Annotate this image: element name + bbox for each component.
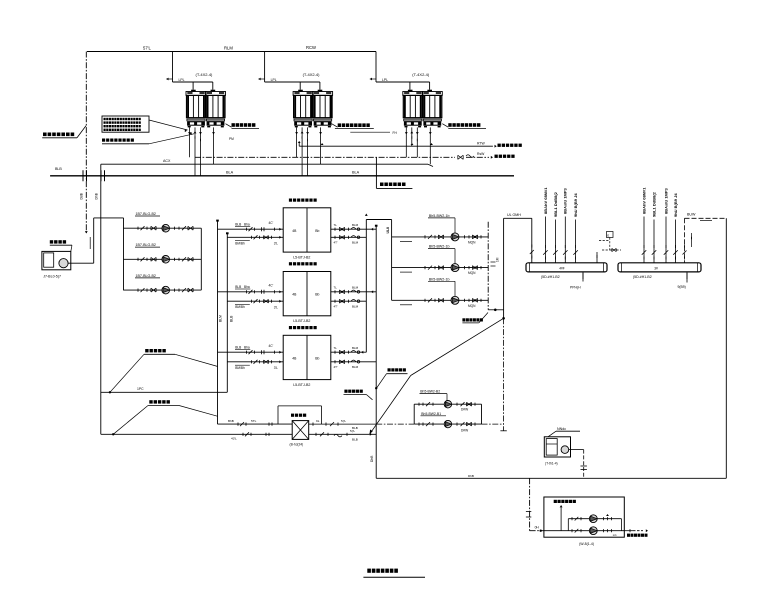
- svg-text:PPH(H: PPH(H: [570, 286, 581, 290]
- svg-text:(T-4X2-4): (T-4X2-4): [303, 72, 321, 77]
- pump branch chilled-water P3: [124, 289, 202, 291]
- riser pipe 9hU B(B9 J4 to manifold: [675, 220, 677, 263]
- svg-text:1B7-BLG-B2: 1B7-BLG-B2: [136, 243, 156, 247]
- svg-text:BLM: BLM: [352, 346, 359, 350]
- svg-text:(T-4X2-4): (T-4X2-4): [196, 72, 214, 77]
- wire pump suction manifold: [123, 218, 125, 291]
- callout blowdown valve lower: [149, 400, 170, 403]
- wire chilled supply riser B: [226, 233, 228, 392]
- cooling tower cell: [191, 90, 196, 92]
- svg-text:(T-4X2-4): (T-4X2-4): [412, 72, 430, 77]
- wire chiller outlet lower: [331, 236, 367, 238]
- wire feed drop to cooling tower pair 1: [172, 52, 174, 83]
- callout left edge (makeup water note): [43, 133, 74, 137]
- wire manifold above tower pair 1: [173, 81, 213, 83]
- wire main cooling water bus BLA: [50, 175, 514, 177]
- node small mark on centerline: [89, 237, 91, 249]
- svg-text:(5D-#H1-B2: (5D-#H1-B2: [541, 275, 560, 279]
- label chiller 02 name above: [289, 262, 317, 265]
- svg-text:5TL: 5TL: [251, 419, 257, 423]
- svg-text:BM/Bh: BM/Bh: [235, 305, 245, 309]
- wire drain stubs below tower pair 3: [405, 127, 407, 157]
- svg-text:3'L: 3'L: [274, 306, 278, 310]
- svg-text:7L: 7L: [334, 223, 338, 227]
- callout second note under box: [102, 139, 134, 142]
- chiller unit LS-02 box: [283, 272, 331, 316]
- valve on blowdown line: [458, 155, 463, 159]
- svg-text:BM/Bh: BM/Bh: [235, 366, 245, 370]
- label skid outlet: [627, 534, 648, 537]
- pump branch condenser-water CP2: [392, 267, 489, 269]
- svg-text:4B: 4B: [292, 229, 297, 233]
- bypass loop above heat exchanger: [277, 406, 279, 424]
- cooling tower cell: [211, 90, 216, 92]
- svg-text:BLB: BLB: [55, 167, 62, 171]
- wire main condenser discharge riser: [503, 218, 505, 318]
- label inside skid: [554, 500, 576, 503]
- svg-text:(W-8(1-4): (W-8(1-4): [579, 542, 594, 546]
- svg-text:5('L: 5('L: [341, 419, 346, 423]
- wire drop into distributor: [531, 218, 533, 262]
- svg-text:UL8: UL8: [386, 227, 390, 234]
- label at collector junction: [462, 318, 483, 321]
- wire drain stubs below tower pair 1: [189, 127, 191, 157]
- wire drain stubs below tower pair 2: [296, 127, 298, 157]
- pump branch condenser-water CP1: [392, 236, 489, 238]
- wire HX outlet upper continue: [309, 423, 377, 425]
- wire blowdown dash-dot line: [195, 156, 455, 158]
- svg-text:L5-BTJ-B2: L5-BTJ-B2: [293, 255, 310, 259]
- label line FH under pair-2 note: [350, 131, 390, 133]
- svg-text:8BAsIU 1MP3: 8BAsIU 1MP3: [663, 187, 668, 214]
- svg-text:BLA: BLA: [226, 170, 234, 174]
- svg-text:BLM: BLM: [352, 305, 359, 309]
- wire from makeup device down to loop: [569, 449, 584, 451]
- bypass between manifolds: [607, 232, 614, 238]
- svg-text:LPL: LPL: [179, 78, 185, 82]
- union fitting on bus near riser: [100, 170, 102, 181]
- callout blowdown valve upper: [145, 349, 166, 352]
- label note line after pair 3: [442, 124, 448, 128]
- svg-text:Bh5-BW2-1b: Bh5-BW2-1b: [429, 214, 450, 218]
- svg-text:Bb: Bb: [315, 293, 319, 297]
- chemical dosing device box: [42, 251, 71, 269]
- callout drain valve at riser D: [388, 368, 406, 371]
- wire manifold above tower pair 3: [376, 81, 430, 83]
- makeup water device box: [544, 437, 570, 457]
- svg-text:BM/Bh: BM/Bh: [235, 241, 245, 245]
- svg-text:9BL1 DdB8(2: 9BL1 DdB8(2: [651, 191, 656, 217]
- svg-text:Bh5-BW2-1b: Bh5-BW2-1b: [429, 277, 450, 281]
- wire lower pipe to heat exchanger: [101, 433, 292, 435]
- svg-text:BLM: BLM: [352, 365, 359, 369]
- wire chiller outlet upper: [331, 228, 376, 230]
- svg-text:4C': 4C': [269, 344, 274, 348]
- riser pipe 8BAsIU 1MP3 to manifold: [665, 217, 667, 263]
- svg-text:4C': 4C': [269, 221, 274, 225]
- svg-text:9hU B(B9 J4: 9hU B(B9 J4: [673, 193, 678, 217]
- riser pipe 8BAsIU 1MP3 to manifold: [564, 217, 566, 263]
- svg-text:BLB: BLB: [235, 285, 241, 289]
- riser pipe 9hU B(B9 J4 to manifold: [575, 220, 577, 263]
- node arrows at tower pair 1 drain junction: [185, 129, 187, 132]
- riser pipe 9BL1 DdB8(2 to manifold: [554, 220, 556, 263]
- svg-text:RsW: RsW: [477, 152, 485, 156]
- wire ACX return header: [101, 163, 428, 165]
- svg-text:D#W: D#W: [461, 429, 468, 433]
- svg-text:4T': 4T': [334, 305, 339, 309]
- wire condenser pump suction manifold: [391, 220, 393, 301]
- wire riser dash-dot continuation down: [503, 318, 505, 431]
- svg-text:MQN: MQN: [468, 304, 476, 308]
- svg-text:Bb: Bb: [315, 229, 319, 233]
- chiller unit LS-03 box: [283, 335, 331, 379]
- wire main left riser: [100, 164, 102, 434]
- svg-text:BLM: BLM: [352, 223, 359, 227]
- wire drop to makeup pump skid: [529, 478, 531, 530]
- svg-text:D#W: D#W: [461, 407, 468, 411]
- riser pipe 8BAhV 08M#1 to manifold: [643, 217, 645, 263]
- svg-text:L5-BTJ-B2: L5-BTJ-B2: [293, 319, 310, 323]
- wire manifold above tower pair 2: [265, 81, 320, 83]
- svg-text:LPL: LPL: [382, 78, 388, 82]
- svg-text:4B: 4B: [292, 356, 297, 360]
- makeup pump skid box: [544, 497, 624, 537]
- wire BUW dashed header to collector: [685, 217, 727, 219]
- svg-text:(T-th1-4): (T-th1-4): [545, 462, 558, 466]
- wire plant loop right edge: [725, 218, 727, 478]
- svg-text:0H: 0H: [535, 525, 540, 529]
- heat exchanger HX-1: [292, 421, 309, 440]
- drain under distributor: [582, 273, 584, 276]
- svg-text:3#: 3#: [654, 267, 658, 271]
- svg-text:43'L: 43'L: [231, 437, 237, 441]
- svg-text:UL OMH: UL OMH: [507, 213, 521, 217]
- wire chiller outlet lower: [331, 361, 376, 363]
- svg-text:DhB: DhB: [468, 474, 474, 478]
- wire pump discharge collector: [200, 228, 202, 290]
- wire feed drop to cooling tower pair 2: [264, 52, 266, 83]
- cooling tower cell: [408, 90, 413, 92]
- wire make-up water line to towers (RTW): [298, 142, 300, 147]
- svg-text:BLM: BLM: [219, 315, 223, 322]
- svg-text:7L: 7L: [334, 346, 338, 350]
- svg-text:J7-BL0-5(7: J7-BL0-5(7: [43, 274, 61, 278]
- union fitting on bus at left: [82, 170, 84, 181]
- svg-text:57'L: 57'L: [143, 46, 151, 51]
- label chiller 03 name above: [289, 326, 317, 329]
- svg-text:RCW: RCW: [306, 45, 316, 50]
- svg-text:1PC: 1PC: [137, 387, 144, 391]
- svg-text:RLM: RLM: [224, 46, 233, 51]
- svg-text:3'L: 3'L: [274, 242, 278, 246]
- wire chiller return riser D (to plant loop): [375, 226, 377, 479]
- svg-text:BLM: BLM: [352, 241, 359, 245]
- extra riser mark near collector right: [691, 233, 693, 247]
- riser pipe 8BAhV 08M#1 to manifold: [544, 217, 546, 263]
- label arrow blowdown: [495, 155, 515, 158]
- svg-text:Bh5-BW2-B2: Bh5-BW2-B2: [420, 390, 440, 394]
- svg-text:FH: FH: [393, 131, 398, 135]
- svg-text:Bh5-BW2-1b: Bh5-BW2-1b: [429, 245, 450, 249]
- svg-text:4B: 4B: [292, 293, 297, 297]
- pump branch chilled-water P2: [124, 258, 202, 260]
- svg-text:4C': 4C': [269, 284, 274, 288]
- wire chiller outlet lower: [331, 300, 367, 302]
- svg-text:DhB: DhB: [95, 192, 99, 199]
- label note line after pair 1: [226, 124, 232, 128]
- wire chiller inlet lower: [227, 361, 283, 363]
- svg-text:9hU B(B9 J4: 9hU B(B9 J4: [573, 193, 578, 217]
- callout expansion joint near riser D: [344, 390, 362, 393]
- pump branch secondary upper: [414, 403, 481, 405]
- chiller unit LS-01 box: [283, 208, 331, 252]
- collector manifold (right bar): [618, 263, 701, 272]
- svg-text:1B7-BLG-B2: 1B7-BLG-B2: [136, 212, 156, 216]
- wire collector tail to junction: [488, 309, 503, 311]
- wire header to distributor: [504, 217, 532, 219]
- wire chiller inlet upper: [218, 228, 284, 230]
- svg-text:MQN: MQN: [468, 241, 476, 245]
- svg-text:8BAhV 08M#1: 8BAhV 08M#1: [641, 187, 646, 214]
- svg-text:BLB: BLB: [235, 223, 241, 227]
- svg-text:3'L: 3'L: [274, 366, 278, 370]
- svg-text:(5D-#H1-B2: (5D-#H1-B2: [633, 275, 652, 279]
- wire upper pipe to heat exchanger: [218, 423, 293, 425]
- cooling tower cell: [318, 90, 323, 92]
- title drawing name: [367, 569, 398, 573]
- pump branch skid upper (bypass loop): [568, 518, 621, 520]
- svg-text:9L: 9L: [316, 419, 320, 423]
- svg-text:BLB: BLB: [230, 315, 234, 322]
- svg-text:9BL1 DdB8(2: 9BL1 DdB8(2: [553, 191, 558, 217]
- svg-text:DhB: DhB: [370, 455, 374, 462]
- svg-text:Bh5-BW2-B1: Bh5-BW2-B1: [421, 412, 441, 416]
- svg-text:8BAhV 08M#1: 8BAhV 08M#1: [543, 187, 548, 214]
- wire chilled supply riser A: [217, 221, 219, 425]
- svg-text:BLB: BLB: [352, 426, 358, 430]
- callout cooling tower note box: [102, 116, 149, 132]
- wire chiller inlet lower: [227, 300, 283, 302]
- svg-text:MQN: MQN: [468, 271, 476, 275]
- riser stub at distributor right end: [596, 252, 598, 263]
- svg-text:NNdc: NNdc: [557, 427, 566, 431]
- svg-text:PM: PM: [229, 137, 234, 141]
- wire secondary pump group left manifold: [413, 404, 415, 424]
- svg-text:BhB: BhB: [228, 419, 234, 423]
- svg-text:BLM: BLM: [352, 286, 359, 290]
- label arrow make-up water: [498, 144, 522, 147]
- wire secondary pump group right manifold: [481, 404, 483, 424]
- svg-text:L5-BTJ-B2: L5-BTJ-B2: [293, 383, 310, 387]
- cooling tower cell: [298, 90, 303, 92]
- wire chiller outlet upper: [331, 351, 367, 353]
- cooling tower cell: [427, 90, 432, 92]
- wire chiller inlet upper: [218, 351, 284, 353]
- drain under collector: [686, 273, 688, 276]
- svg-text:E: E: [607, 233, 609, 237]
- pump branch condenser-water CP3: [392, 299, 489, 301]
- wire vent with arrow inside skid: [560, 508, 562, 531]
- pump branch skid lower: [544, 530, 624, 532]
- wire cooling-water top supply bus: [87, 51, 376, 53]
- svg-text:(B-hJ(24): (B-hJ(24): [290, 443, 304, 447]
- wire LPC return line: [101, 391, 228, 393]
- label chilled system branch: [375, 157, 377, 188]
- wire chiller return riser C: [365, 220, 367, 353]
- node top-bus left corner / centerline drop: [85, 52, 87, 234]
- wire secondary outlet dash-dot to riser: [482, 423, 504, 425]
- label chiller 01 name above: [289, 199, 317, 202]
- pump branch secondary lower: [414, 423, 481, 425]
- valves on HX upper pipe: [237, 423, 239, 426]
- wire condenser pump discharge collector dash-dot: [487, 222, 489, 310]
- svg-text:4#F: 4#F: [559, 267, 565, 271]
- wire chiller inlet upper: [218, 291, 284, 293]
- wire from doser to riser header: [68, 262, 94, 264]
- wire feed drop to cooling tower pair 3: [375, 52, 377, 83]
- svg-text:LPL: LPL: [271, 78, 277, 82]
- svg-text:4T': 4T': [334, 365, 339, 369]
- svg-text:RTW: RTW: [477, 142, 485, 146]
- label above heat exchanger: [291, 414, 306, 417]
- svg-text:Bha: Bha: [244, 346, 250, 350]
- svg-text:7L: 7L: [334, 286, 338, 290]
- wire skid outlet arrow: [624, 530, 633, 532]
- wire stub from BUW header into collector: [684, 218, 686, 262]
- svg-text:8BAsIU 1MP3: 8BAsIU 1MP3: [563, 187, 568, 214]
- pump branch chilled-water P1: [124, 227, 202, 229]
- wire HX outlet lower to riser D: [309, 433, 377, 435]
- svg-text:m1: m1: [613, 533, 617, 537]
- svg-text:Bha: Bha: [244, 223, 250, 227]
- svg-text:BLB: BLB: [352, 438, 358, 442]
- valves on HX lower pipe: [242, 433, 244, 436]
- svg-text:4T': 4T': [334, 241, 339, 245]
- leader from note box to tower pair 1: [149, 120, 188, 130]
- svg-text:BUW: BUW: [687, 213, 696, 217]
- svg-text:1B7-BLG-B2: 1B7-BLG-B2: [136, 274, 156, 278]
- label device above: [50, 240, 66, 243]
- label note line after pair 2: [332, 124, 338, 128]
- svg-text:ACX: ACX: [163, 159, 171, 163]
- svg-text:BLA: BLA: [352, 170, 360, 174]
- svg-text:Bb: Bb: [315, 356, 319, 360]
- svg-text:BLB: BLB: [235, 346, 241, 350]
- svg-text:Bha: Bha: [244, 285, 250, 289]
- riser pipe 9BL1 DdB8(2 to manifold: [653, 220, 655, 263]
- svg-text:1M: 1M: [496, 257, 500, 262]
- wire chiller outlet upper: [331, 291, 376, 293]
- wire plant loop bottom line: [376, 477, 726, 479]
- distributor manifold (left bar): [526, 263, 607, 272]
- svg-text:DdB: DdB: [80, 192, 84, 199]
- wire bent diagonal connector to plant loop: [411, 318, 504, 375]
- wire chiller inlet lower: [227, 236, 283, 238]
- svg-text:9(B9): 9(B9): [678, 285, 686, 289]
